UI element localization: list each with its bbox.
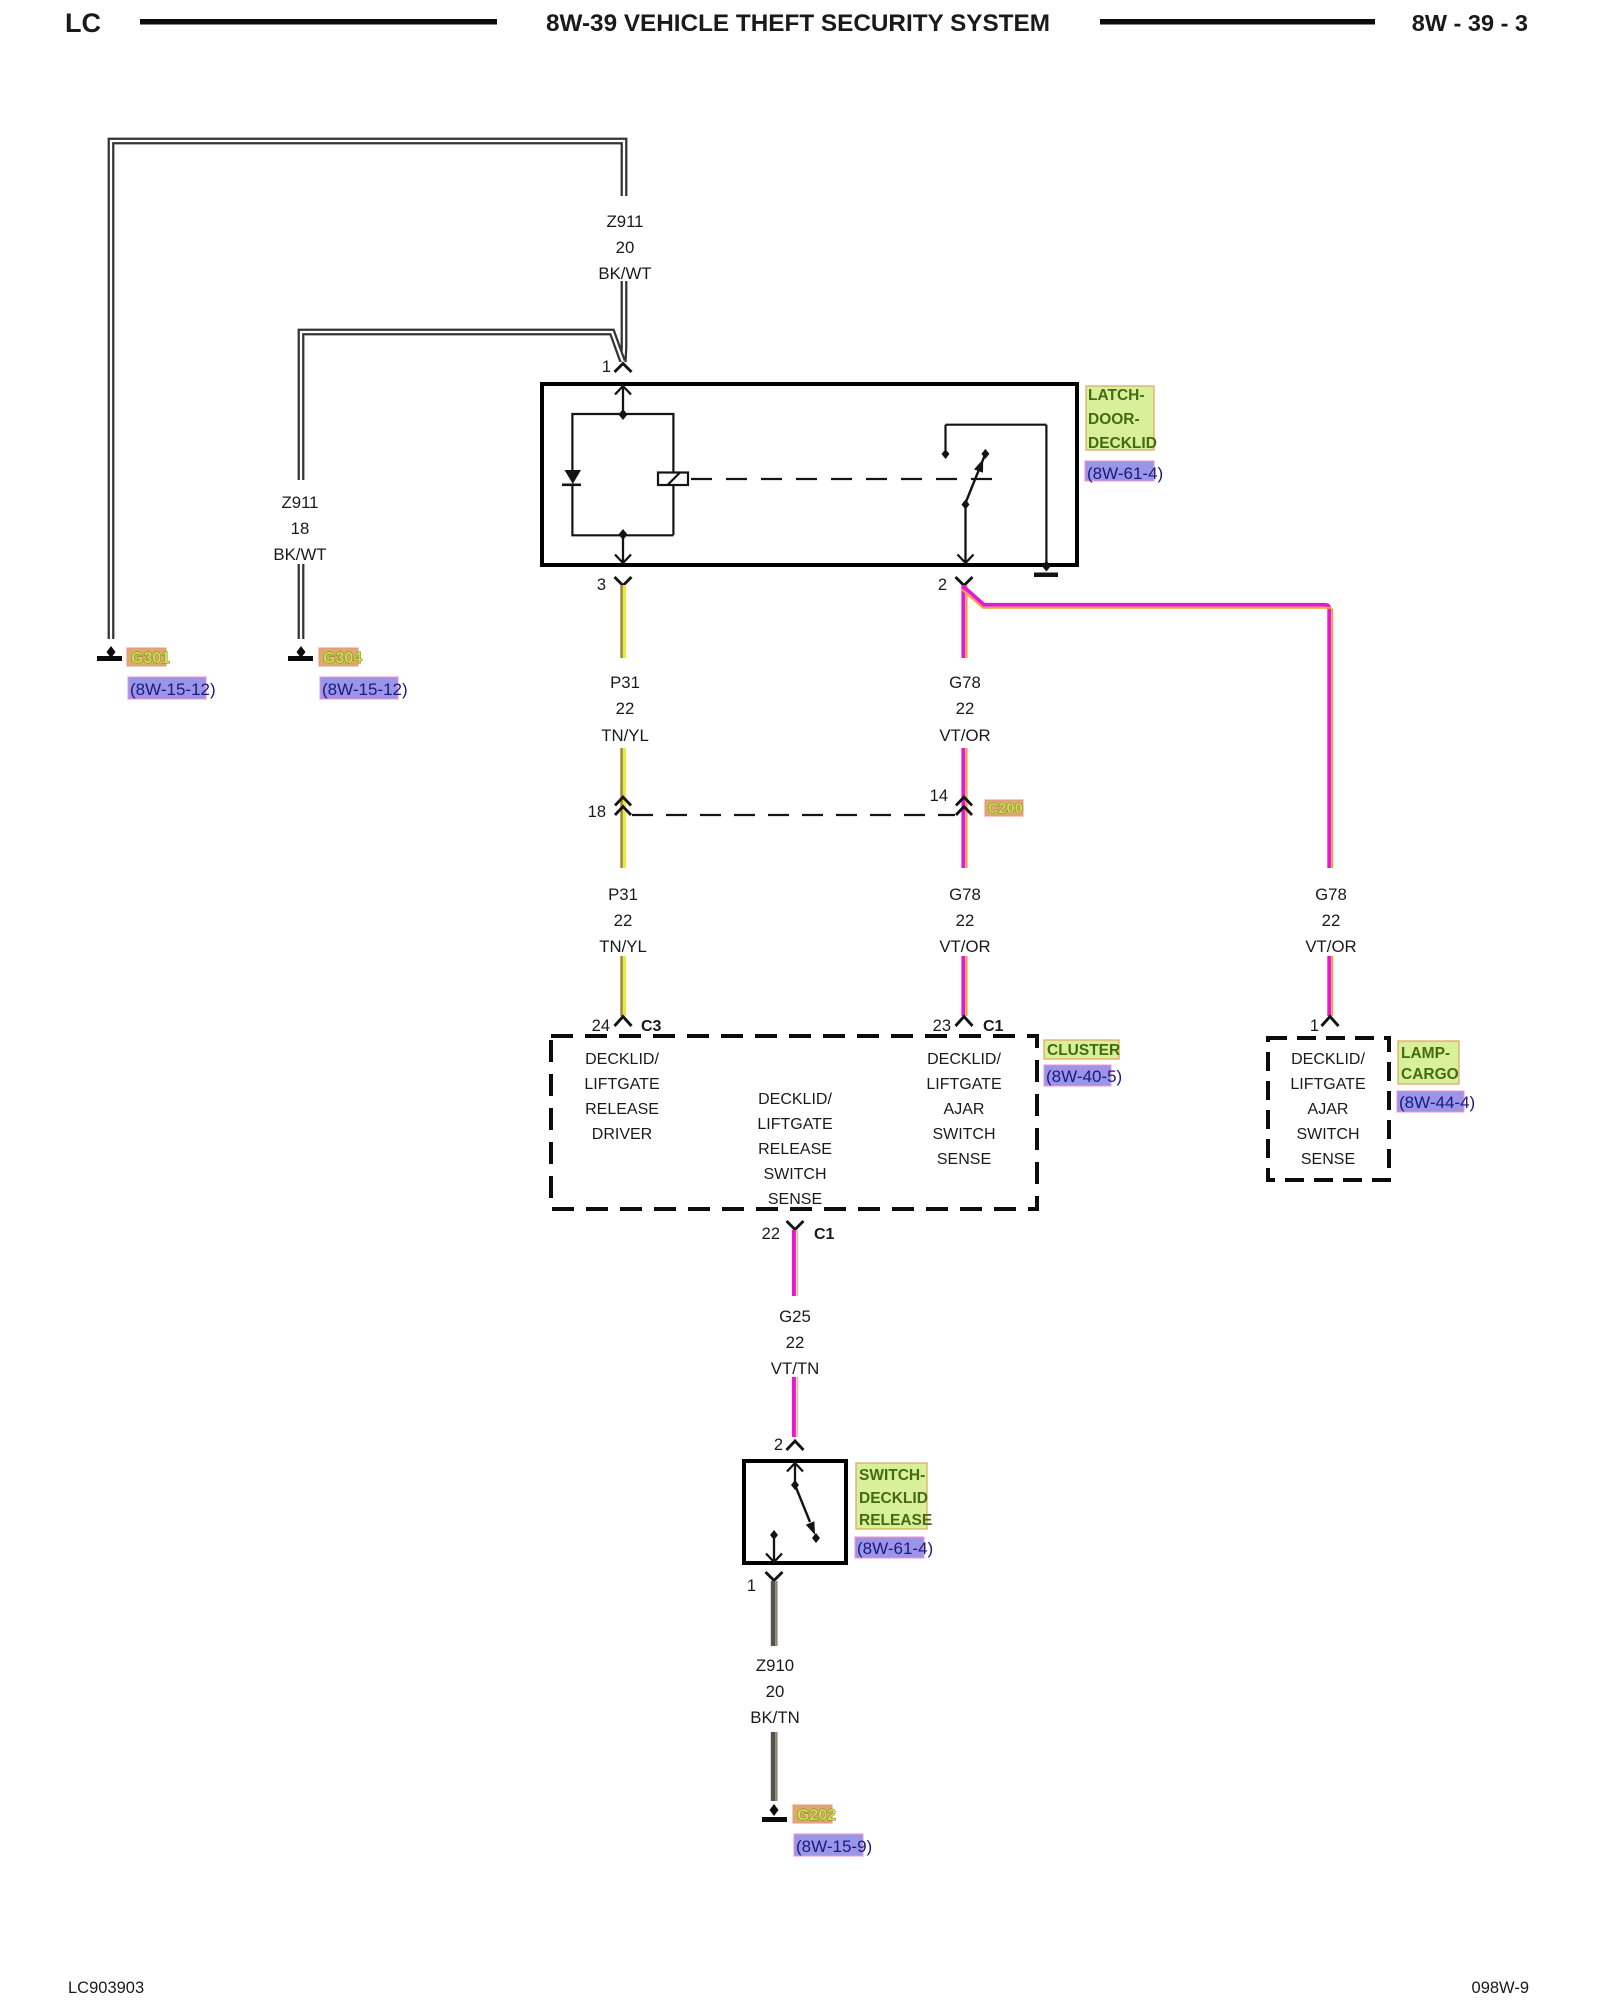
cluster dashed box — [551, 1036, 1037, 1209]
relay coil branch arrow up — [615, 386, 631, 414]
cluster text decklid/liftgate ajar switch sense — [926, 1051, 1001, 1168]
svg-text:VT/OR: VT/OR — [1305, 937, 1356, 956]
svg-text:(8W-40-5): (8W-40-5) — [1046, 1067, 1122, 1086]
ground G304 — [288, 646, 408, 699]
svg-text:20: 20 — [766, 1682, 785, 1701]
svg-text:RELEASE: RELEASE — [859, 1512, 932, 1529]
svg-text:(8W-15-12): (8W-15-12) — [130, 680, 216, 699]
switch blade — [795, 1485, 810, 1522]
wire G78 VT/OR from pin 2 — [963, 585, 966, 868]
relay box LATCH-DOOR-DECKLID — [542, 384, 1077, 565]
svg-text:G301: G301 — [131, 650, 170, 667]
connector pin 1 lamp — [1322, 1017, 1339, 1027]
relay contact wiring — [946, 425, 1047, 564]
svg-text:BK/WT: BK/WT — [273, 545, 326, 564]
relay switch arrow down to pin 2 — [958, 505, 974, 563]
svg-text:LIFTGATE: LIFTGATE — [926, 1076, 1001, 1093]
svg-text:P31: P31 — [610, 673, 640, 692]
svg-text:VT/OR: VT/OR — [939, 937, 990, 956]
svg-text:SWITCH-: SWITCH- — [859, 1467, 925, 1484]
svg-text:DECKLID/: DECKLID/ — [927, 1051, 1001, 1068]
svg-text:LIFTGATE: LIFTGATE — [584, 1076, 659, 1093]
svg-text:18: 18 — [588, 803, 606, 821]
switch pivot dot — [791, 1480, 799, 1490]
svg-text:SWITCH: SWITCH — [763, 1166, 826, 1183]
svg-text:DECKLID/: DECKLID/ — [1291, 1051, 1365, 1068]
svg-text:AJAR: AJAR — [1308, 1101, 1349, 1118]
dashed link coil to contact — [691, 478, 1005, 480]
diode — [565, 470, 582, 484]
connector pin 22 C1 below cluster — [787, 1221, 804, 1230]
svg-text:Z911: Z911 — [281, 493, 318, 512]
dashed line C200 — [632, 814, 955, 816]
connector pin 24 C3 — [615, 1017, 632, 1027]
svg-text:14: 14 — [930, 787, 948, 805]
lamp-cargo dashed box — [1268, 1038, 1389, 1180]
wire Z910 BK/TN — [773, 1581, 776, 1801]
switch pin 1 connector — [766, 1572, 783, 1581]
wire label P31 22 TN/YL — [601, 673, 649, 745]
svg-text:G304: G304 — [323, 650, 362, 667]
connector pin 23 C1 — [956, 1017, 973, 1027]
ground G301 — [97, 646, 216, 699]
svg-text:3: 3 — [597, 576, 606, 594]
svg-text:SENSE: SENSE — [768, 1191, 822, 1208]
relay coil arrow down to pin 3 — [615, 535, 631, 563]
svg-text:1: 1 — [1310, 1017, 1319, 1035]
connector C200 pin 18 — [615, 797, 631, 815]
svg-text:G78: G78 — [949, 673, 981, 692]
svg-text:C1: C1 — [814, 1226, 835, 1243]
svg-text:(8W-61-4): (8W-61-4) — [1087, 464, 1163, 483]
svg-text:098W-9: 098W-9 — [1472, 1979, 1529, 1997]
connector C200 pin 14 — [956, 797, 972, 815]
wire label P31 22 TN/YL lower — [599, 885, 647, 956]
svg-text:2: 2 — [938, 576, 947, 594]
svg-text:P31: P31 — [608, 885, 638, 904]
wire label G78 22 VT/OR right — [1305, 885, 1356, 956]
relay coil loop — [572, 414, 673, 535]
svg-text:LIFTGATE: LIFTGATE — [757, 1116, 832, 1133]
junction dot coil bottom node — [619, 529, 628, 540]
svg-text:LAMP-: LAMP- — [1401, 1045, 1450, 1062]
switch arrow up — [787, 1463, 803, 1484]
pin 2 connector — [956, 577, 973, 586]
label SWITCH-DECKLID RELEASE — [855, 1463, 933, 1558]
coil element — [658, 473, 688, 486]
svg-text:CARGO: CARGO — [1401, 1066, 1459, 1083]
relay switch blade — [966, 456, 985, 503]
svg-text:BK/TN: BK/TN — [750, 1708, 799, 1727]
svg-text:(8W-15-12): (8W-15-12) — [322, 680, 408, 699]
cluster text decklid/liftgate release driver — [584, 1051, 659, 1143]
svg-text:22: 22 — [762, 1225, 780, 1243]
relay blade tip dot — [981, 449, 989, 459]
svg-text:8W-39 VEHICLE THEFT SECURITY S: 8W-39 VEHICLE THEFT SECURITY SYSTEM — [546, 10, 1050, 37]
svg-text:22: 22 — [614, 911, 633, 930]
ground G202 — [762, 1804, 872, 1856]
wire label G78 22 VT/OR center — [939, 673, 990, 745]
svg-text:C1: C1 — [983, 1018, 1004, 1035]
switch pin 2 connector — [787, 1441, 804, 1450]
wire Z911 18 BK/WT — [301, 332, 623, 639]
relay latch-door-decklid pin 1 connector — [615, 364, 632, 373]
wire label Z911 20 BK/WT — [598, 212, 651, 283]
relay blade pivot dot — [962, 500, 970, 510]
svg-text:DECKLID/: DECKLID/ — [585, 1051, 659, 1068]
svg-text:DOOR-: DOOR- — [1088, 411, 1140, 428]
svg-text:DECKLID: DECKLID — [859, 1490, 928, 1507]
header — [65, 8, 1528, 38]
wire G78 VT/OR branch to right — [962, 587, 1332, 1016]
svg-text:G78: G78 — [1315, 885, 1347, 904]
svg-text:LC903903: LC903903 — [68, 1979, 144, 1997]
svg-text:SENSE: SENSE — [1301, 1151, 1355, 1168]
svg-text:TN/YL: TN/YL — [599, 937, 647, 956]
wire G25 VT/TN — [794, 1230, 797, 1437]
label LATCH-DOOR-DECKLID — [1085, 386, 1163, 483]
svg-text:8W - 39 - 3: 8W - 39 - 3 — [1412, 10, 1528, 36]
svg-text:DECKLID: DECKLID — [1088, 435, 1157, 452]
svg-text:VT/TN: VT/TN — [771, 1359, 819, 1378]
svg-text:(8W-61-4): (8W-61-4) — [857, 1539, 933, 1558]
svg-text:Z911: Z911 — [606, 212, 643, 231]
svg-text:22: 22 — [786, 1333, 805, 1352]
svg-text:VT/OR: VT/OR — [939, 726, 990, 745]
svg-text:AJAR: AJAR — [944, 1101, 985, 1118]
wire label G25 22 VT/TN — [771, 1307, 819, 1378]
svg-text:22: 22 — [956, 699, 975, 718]
label LAMP-CARGO — [1398, 1041, 1459, 1084]
switch lower contact — [770, 1530, 778, 1540]
switch box SWITCH-DECKLID RELEASE — [744, 1461, 846, 1563]
relay blade arrowhead — [974, 459, 983, 473]
svg-text:Z910: Z910 — [756, 1656, 794, 1675]
junction dot coil top node — [619, 409, 628, 420]
relay fixed contact dot — [942, 449, 950, 459]
svg-text:RELEASE: RELEASE — [758, 1141, 832, 1158]
svg-text:C3: C3 — [641, 1018, 662, 1035]
svg-text:24: 24 — [592, 1017, 610, 1035]
svg-text:20: 20 — [616, 238, 635, 257]
footer — [68, 1979, 1529, 1997]
label C200 — [985, 800, 1023, 816]
wire G78 VT/OR segment 2 — [963, 956, 966, 1016]
wire label Z910 20 BK/TN — [750, 1656, 799, 1727]
label CLUSTER — [1044, 1040, 1119, 1059]
svg-text:RELEASE: RELEASE — [585, 1101, 659, 1118]
svg-text:22: 22 — [1322, 911, 1341, 930]
svg-text:2: 2 — [774, 1436, 783, 1454]
svg-text:G78: G78 — [949, 885, 981, 904]
svg-text:G25: G25 — [779, 1307, 811, 1326]
svg-text:1: 1 — [747, 1577, 756, 1595]
svg-text:23: 23 — [933, 1017, 951, 1035]
svg-text:TN/YL: TN/YL — [601, 726, 649, 745]
svg-text:SWITCH: SWITCH — [932, 1126, 995, 1143]
wire P31 TN/YL segment 2 — [622, 956, 625, 1016]
svg-text:LIFTGATE: LIFTGATE — [1290, 1076, 1365, 1093]
svg-text:1: 1 — [602, 358, 611, 376]
pin 3 connector — [615, 577, 632, 586]
svg-text:(8W-44-4): (8W-44-4) — [1399, 1093, 1475, 1112]
wire label Z911 18 BK/WT — [273, 493, 326, 564]
wire P31 TN/YL segment 1 — [622, 585, 625, 868]
svg-text:C200: C200 — [988, 801, 1023, 817]
svg-text:(8W-15-9): (8W-15-9) — [796, 1837, 872, 1856]
wire Z911 20 BK/WT — [111, 141, 624, 639]
svg-text:LATCH-: LATCH- — [1088, 387, 1145, 404]
svg-text:DRIVER: DRIVER — [592, 1126, 652, 1143]
svg-text:SENSE: SENSE — [937, 1151, 991, 1168]
lamp box text — [1290, 1051, 1365, 1168]
svg-text:CLUSTER: CLUSTER — [1047, 1042, 1120, 1059]
wire label G78 22 VT/OR lower center — [939, 885, 990, 956]
svg-text:G202: G202 — [797, 1807, 836, 1824]
svg-text:18: 18 — [291, 519, 310, 538]
svg-text:DECKLID/: DECKLID/ — [758, 1091, 832, 1108]
svg-text:22: 22 — [956, 911, 975, 930]
svg-text:SWITCH: SWITCH — [1296, 1126, 1359, 1143]
svg-text:22: 22 — [616, 699, 635, 718]
relay internal ground — [1042, 561, 1051, 572]
svg-text:BK/WT: BK/WT — [598, 264, 651, 283]
cluster text decklid/liftgate release switch sense — [757, 1091, 832, 1208]
svg-text:LC: LC — [65, 8, 101, 38]
